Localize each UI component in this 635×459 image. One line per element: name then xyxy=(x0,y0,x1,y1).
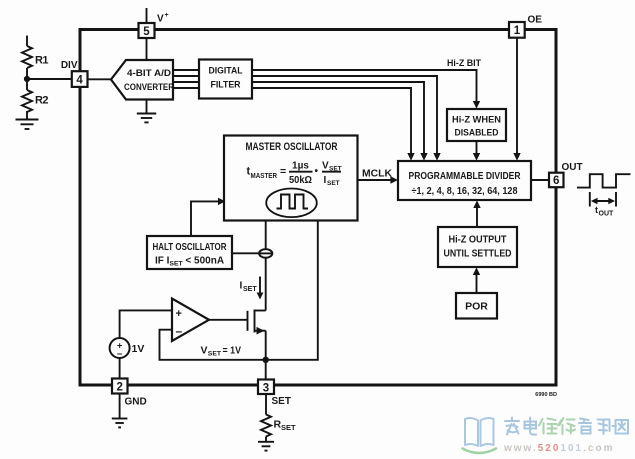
svg-text:www.520101.com: www.520101.com xyxy=(503,443,614,454)
ground below ADC xyxy=(137,100,156,123)
svg-text:5: 5 xyxy=(143,26,150,38)
svg-text:–: – xyxy=(117,349,123,360)
ground below R2 xyxy=(16,120,39,130)
svg-text:50kΩ: 50kΩ xyxy=(289,175,312,186)
svg-text:HALT OSCILLATOR: HALT OSCILLATOR xyxy=(153,242,228,253)
programmable divider xyxy=(398,161,531,200)
pin 3 xyxy=(258,380,274,395)
resistor R2 xyxy=(22,79,49,119)
ground below RSET xyxy=(258,442,274,451)
svg-text:R1: R1 xyxy=(35,55,49,67)
svg-text:DIV: DIV xyxy=(61,60,78,71)
svg-text:SET: SET xyxy=(327,180,340,187)
svg-text:OE: OE xyxy=(528,15,543,26)
wire filter bit to divider (inner) xyxy=(252,88,411,154)
transistor Q1 NMOS xyxy=(248,310,266,360)
wire filter bit to divider (outer) xyxy=(252,76,437,154)
svg-text:3: 3 xyxy=(263,382,269,394)
svg-text:1µs: 1µs xyxy=(292,161,309,172)
svg-text:4-BIT A/D: 4-BIT A/D xyxy=(127,68,171,79)
wire ADC to filter bit0 xyxy=(173,69,199,71)
svg-text:SET: SET xyxy=(208,351,222,358)
wire POR to settled block xyxy=(476,274,478,293)
wire V+ above pin 5 xyxy=(146,8,148,23)
svg-text:OUT: OUT xyxy=(599,211,615,218)
Hi-Z output until settled block xyxy=(438,227,517,267)
watermark chinese text xyxy=(505,418,628,435)
svg-text:IF ISET < 500nA: IF ISET < 500nA xyxy=(155,256,224,268)
wire Hi-Z bit filter to Hi-Z-when-disabled xyxy=(252,70,477,102)
wire pin4 to ADC xyxy=(88,78,112,80)
wire node to pin 3 xyxy=(265,360,267,380)
svg-text:+: + xyxy=(165,12,169,19)
svg-text:1V: 1V xyxy=(132,343,145,355)
svg-text:2: 2 xyxy=(116,381,122,393)
wire master osc right stub to feedback xyxy=(266,221,318,360)
svg-text:Hi-Z BIT: Hi-Z BIT xyxy=(447,58,481,69)
svg-text:6990 BD: 6990 BD xyxy=(535,392,557,398)
svg-text:FILTER: FILTER xyxy=(211,80,241,91)
wire settled block to divider xyxy=(476,207,478,227)
svg-text:+: + xyxy=(176,308,182,320)
pin 5 xyxy=(139,23,155,38)
resistor R1 xyxy=(22,36,49,80)
wire ADC to filter bit3 xyxy=(173,87,199,89)
output waveform xyxy=(577,174,631,187)
svg-text:=: = xyxy=(280,166,286,178)
svg-text:MASTER OSCILLATOR: MASTER OSCILLATOR xyxy=(246,141,338,153)
svg-text:MASTER: MASTER xyxy=(251,173,278,180)
svg-text:Hi-Z OUTPUT: Hi-Z OUTPUT xyxy=(449,235,507,246)
pin 2 xyxy=(112,379,128,394)
wire op-amp + input xyxy=(120,310,172,338)
svg-text:1: 1 xyxy=(514,25,521,37)
svg-text:V: V xyxy=(157,14,164,25)
wire ADC to filter bit1 xyxy=(173,75,199,77)
node ISET label and arrow xyxy=(240,277,264,300)
svg-text:= 1V: = 1V xyxy=(223,345,242,357)
wire node to pin 4 xyxy=(27,78,72,80)
pin 6 xyxy=(549,173,564,188)
op-amp U2 xyxy=(172,299,209,342)
outer IC boundary box xyxy=(80,30,556,386)
svg-text:POR: POR xyxy=(465,301,488,313)
svg-text:DIGITAL: DIGITAL xyxy=(209,66,243,77)
svg-text:–: – xyxy=(176,324,183,338)
pin 1 xyxy=(509,22,525,38)
svg-text:PROGRAMMABLE DIVIDER: PROGRAMMABLE DIVIDER xyxy=(409,170,521,182)
svg-text:V: V xyxy=(201,345,208,357)
resistor RSET xyxy=(261,415,296,437)
svg-text:R2: R2 xyxy=(35,95,49,107)
wire halt osc to sense node xyxy=(232,252,272,254)
svg-text:SET: SET xyxy=(272,396,291,407)
svg-text:OUT: OUT xyxy=(562,162,583,173)
wire pin2 to ground xyxy=(119,394,121,419)
wire RSET to ground xyxy=(265,437,267,442)
wire divider to pin 6 xyxy=(531,179,549,181)
svg-text:4: 4 xyxy=(76,74,83,86)
watermark book icon xyxy=(463,418,497,453)
wire pin3 to RSET xyxy=(265,394,267,415)
wire sense to mosfet drain xyxy=(265,258,267,311)
POR block xyxy=(456,293,497,319)
ground below pin 2 xyxy=(112,419,128,428)
svg-text:SET: SET xyxy=(243,286,257,293)
wire Hi-Z-when-disabled to divider xyxy=(476,141,478,154)
wire filter bit to divider (middle) xyxy=(252,82,424,154)
svg-text:÷1, 2, 4, 8, 16, 32, 64, 128: ÷1, 2, 4, 8, 16, 32, 64, 128 xyxy=(412,186,518,197)
node divider junction xyxy=(24,76,30,82)
pin 4 xyxy=(72,71,88,87)
wire source to pin 2 xyxy=(119,358,121,379)
wire ADC to filter bit2 xyxy=(173,81,199,83)
svg-text:GND: GND xyxy=(125,397,147,408)
current sense symbol xyxy=(259,249,272,258)
digital filter xyxy=(199,60,252,99)
tOUT measure ticks and arrows xyxy=(590,192,616,207)
svg-text:V: V xyxy=(322,161,329,172)
halt oscillator block xyxy=(147,236,232,269)
wire MCLK to divider xyxy=(358,179,393,181)
svg-text:Hi-Z WHEN: Hi-Z WHEN xyxy=(452,115,501,126)
wire master osc to current sense xyxy=(265,221,267,250)
svg-text:•: • xyxy=(315,166,319,177)
node source junction xyxy=(263,357,269,363)
wire pin5 to ADC xyxy=(146,38,148,60)
wire op-amp output to gate xyxy=(209,319,248,321)
voltage source 1V xyxy=(110,338,145,360)
svg-text:6: 6 xyxy=(553,175,559,187)
Hi-Z when disabled block xyxy=(447,109,506,141)
4-bit A/D converter xyxy=(111,60,174,100)
master oscillator U1 xyxy=(224,136,358,221)
svg-text:DISABLED: DISABLED xyxy=(455,128,499,139)
wire op-amp - input feedback xyxy=(160,330,266,360)
wire OE pin to divider xyxy=(516,38,518,154)
svg-text:SET: SET xyxy=(281,423,296,432)
svg-text:UNTIL SETTLED: UNTIL SETTLED xyxy=(444,249,512,260)
svg-text:CONVERTER: CONVERTER xyxy=(124,82,174,93)
wire halt osc to master osc xyxy=(191,201,220,236)
svg-text:MCLK: MCLK xyxy=(362,169,393,180)
